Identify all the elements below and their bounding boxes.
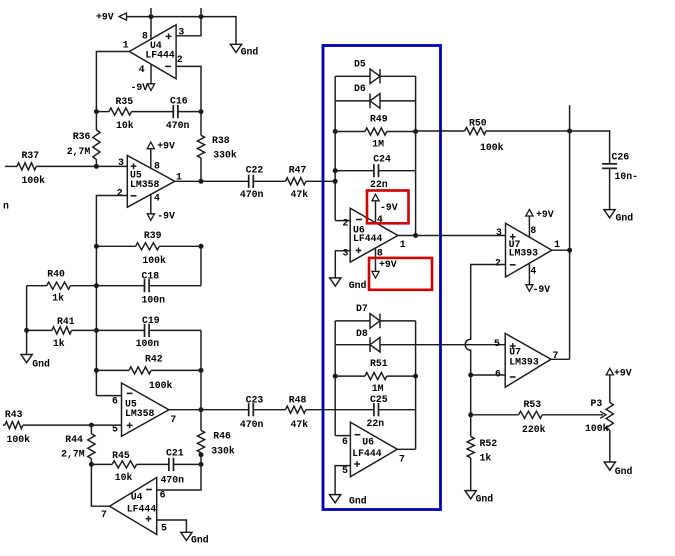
power +9V U5a xyxy=(147,140,175,151)
error box 2 red xyxy=(369,258,432,290)
wire R37 to U5a pin3 xyxy=(36,165,127,167)
junction input left rail xyxy=(333,179,338,184)
svg-text:470n: 470n xyxy=(161,474,185,485)
svg-text:100k: 100k xyxy=(585,423,609,434)
svg-text:100k: 100k xyxy=(480,142,504,153)
svg-text:8: 8 xyxy=(530,225,536,236)
svg-text:R52: R52 xyxy=(480,438,498,449)
svg-text:-9V: -9V xyxy=(380,202,398,213)
svg-text:D7: D7 xyxy=(356,303,368,314)
wire U7a pin4 xyxy=(528,263,530,284)
wire U6b output xyxy=(397,448,415,450)
wire R35 left xyxy=(96,111,109,113)
junction C18 left xyxy=(94,283,99,288)
svg-text:+9V: +9V xyxy=(379,259,397,270)
ground top xyxy=(230,44,258,57)
svg-text:4: 4 xyxy=(154,193,160,204)
wire U7a pin8 xyxy=(528,216,530,237)
op-amp U5 section B xyxy=(112,383,176,436)
svg-text:n: n xyxy=(3,201,9,212)
svg-text:LF444: LF444 xyxy=(353,233,383,244)
wire C16 right xyxy=(178,111,201,113)
error box 1 red xyxy=(367,191,409,224)
wire U5a pin4 xyxy=(150,194,152,213)
svg-text:R53: R53 xyxy=(524,399,542,410)
diode D8 xyxy=(356,328,380,352)
wire U7a pin2 down xyxy=(465,265,505,376)
wire bus pin6 to R53 xyxy=(470,375,472,415)
svg-text:1: 1 xyxy=(123,40,129,51)
svg-text:R41: R41 xyxy=(57,316,75,327)
svg-text:R42: R42 xyxy=(145,353,163,364)
power -9V U6a (error) xyxy=(372,194,398,213)
wire U5b output xyxy=(169,409,249,411)
svg-text:+9V: +9V xyxy=(96,11,114,22)
power -9V U5a xyxy=(147,210,175,221)
wire right rail lower xyxy=(415,321,417,449)
junction R41 left xyxy=(24,328,29,333)
svg-text:4: 4 xyxy=(530,265,536,276)
svg-text:4: 4 xyxy=(139,64,145,75)
svg-text:22n: 22n xyxy=(370,179,388,190)
junction C16 right xyxy=(199,109,204,114)
ground R40/R41 xyxy=(21,355,50,370)
wire U5a output xyxy=(175,180,249,182)
wire D6 row xyxy=(335,100,415,102)
svg-text:6: 6 xyxy=(495,369,501,380)
net label n xyxy=(3,201,9,212)
diode D5 xyxy=(354,58,380,83)
junction output R46 xyxy=(199,407,204,412)
svg-text:R45: R45 xyxy=(112,450,130,461)
svg-text:2: 2 xyxy=(343,218,349,229)
op-amp U6 section A xyxy=(343,208,406,262)
junction R39 left xyxy=(94,244,99,249)
wire left rail upper xyxy=(334,76,336,220)
junction U7a output xyxy=(567,248,572,253)
wire C21 node down to pin6 xyxy=(157,455,201,490)
resistor R41 xyxy=(27,316,97,349)
wire C26 to gnd xyxy=(609,168,611,209)
resistor R35 xyxy=(109,96,134,131)
svg-text:1: 1 xyxy=(554,239,560,250)
svg-text:R44: R44 xyxy=(65,434,83,445)
svg-text:R36: R36 xyxy=(73,131,91,142)
svg-text:1k: 1k xyxy=(53,338,65,349)
svg-text:Gnd: Gnd xyxy=(241,47,259,58)
ground U4b xyxy=(181,532,209,545)
junction U6a output xyxy=(413,233,418,238)
resistor R45 xyxy=(91,450,136,483)
wire D8 row to U7b pin5 xyxy=(335,344,505,346)
resistor R50 xyxy=(416,117,570,153)
svg-text:3: 3 xyxy=(496,227,502,238)
svg-text:C16: C16 xyxy=(170,96,188,107)
svg-text:1M: 1M xyxy=(372,383,384,394)
wire U6a output xyxy=(398,235,506,237)
diode D6 xyxy=(354,83,380,108)
svg-text:C25: C25 xyxy=(370,394,388,405)
svg-text:R37: R37 xyxy=(22,150,40,161)
capacitor C16 xyxy=(166,96,190,132)
wire U5a pin2 left rail xyxy=(96,196,127,396)
capacitor C19 row xyxy=(96,315,201,349)
junction R39 right xyxy=(199,244,204,249)
capacitor C25 xyxy=(367,394,388,429)
resistor R52 xyxy=(467,415,497,491)
capacitor C24 row xyxy=(335,154,415,191)
svg-text:C21: C21 xyxy=(166,447,184,458)
power +9V label top-left xyxy=(96,11,127,22)
svg-text:10n-: 10n- xyxy=(615,171,639,182)
wire D7 row xyxy=(335,320,415,322)
wiper arrow P3 xyxy=(600,411,606,418)
svg-text:LM358: LM358 xyxy=(130,179,160,190)
svg-text:1: 1 xyxy=(400,239,406,250)
wire R43 to U5b pin5 xyxy=(23,424,122,426)
svg-text:LF444: LF444 xyxy=(352,448,382,459)
wire R47 to box xyxy=(306,180,335,182)
resistor R42 xyxy=(96,353,201,391)
svg-text:Gnd: Gnd xyxy=(191,535,209,546)
svg-text:R43: R43 xyxy=(5,409,23,420)
ground U6a xyxy=(330,278,367,291)
wire U4a pin1 feedback xyxy=(96,52,129,112)
wire +9V to pin8 node xyxy=(127,16,152,18)
op-amp U7 section B xyxy=(494,333,559,387)
wire U7b output xyxy=(551,358,570,360)
op-amp U4 section B xyxy=(101,478,167,535)
junction C24 left xyxy=(333,168,338,173)
resistor R36 xyxy=(67,112,100,167)
junction R44/R45 xyxy=(89,462,94,467)
svg-text:R48: R48 xyxy=(289,395,307,406)
resistor R40 xyxy=(27,268,97,303)
resistor R46 xyxy=(197,410,235,457)
wire U4a pin2 xyxy=(176,66,201,111)
junction R50 right xyxy=(567,129,572,134)
svg-text:100n: 100n xyxy=(136,338,160,349)
junction pin8/+9V xyxy=(149,14,154,19)
wire C25 right xyxy=(379,409,416,411)
svg-text:8: 8 xyxy=(142,31,148,42)
wire to C26 xyxy=(570,131,610,164)
svg-text:R46: R46 xyxy=(213,431,231,442)
svg-text:470n: 470n xyxy=(240,189,264,200)
svg-text:+9V: +9V xyxy=(157,140,175,151)
capacitor C23 xyxy=(240,395,264,431)
svg-text:R47: R47 xyxy=(289,165,307,176)
svg-text:1k: 1k xyxy=(52,292,64,303)
resistor R53 xyxy=(471,399,603,435)
wire U4a pin3 xyxy=(176,17,201,36)
wire P3 top xyxy=(609,375,611,402)
wire left rail lower xyxy=(334,321,336,436)
svg-text:7: 7 xyxy=(170,414,176,425)
resistor R51 xyxy=(335,358,415,394)
wire right bus xyxy=(569,105,571,359)
svg-text:100k: 100k xyxy=(22,175,46,186)
wire U6b pin5 to gnd xyxy=(335,466,350,495)
svg-text:Gnd: Gnd xyxy=(32,359,50,370)
svg-text:R51: R51 xyxy=(370,358,388,369)
svg-text:R40: R40 xyxy=(47,268,65,279)
junction R53 left xyxy=(468,412,473,417)
wire U6a pin4 xyxy=(375,201,377,223)
resistor R44 xyxy=(61,425,95,464)
svg-text:Gnd: Gnd xyxy=(615,466,633,477)
svg-text:U4: U4 xyxy=(131,492,143,503)
svg-text:C26: C26 xyxy=(612,152,630,163)
svg-text:6: 6 xyxy=(112,396,118,407)
svg-text:5: 5 xyxy=(494,338,500,349)
node pin3 stub xyxy=(200,8,202,17)
svg-text:220k: 220k xyxy=(522,424,546,435)
svg-text:5: 5 xyxy=(161,523,167,534)
wire right rail upper xyxy=(415,76,417,235)
op-amp U7 section A xyxy=(495,223,560,277)
power +9V U6a (error) xyxy=(372,259,397,278)
svg-text:-9V: -9V xyxy=(533,284,551,295)
junction R42 right xyxy=(199,368,204,373)
wire U6b pin6 xyxy=(335,435,350,437)
svg-text:Gnd: Gnd xyxy=(616,213,634,224)
svg-text:C23: C23 xyxy=(246,395,264,406)
svg-text:470n: 470n xyxy=(166,120,190,131)
svg-text:U6: U6 xyxy=(362,437,374,448)
svg-text:6: 6 xyxy=(160,490,166,501)
svg-text:10k: 10k xyxy=(116,120,134,131)
svg-text:R35: R35 xyxy=(116,96,134,107)
op-amp U5 section A xyxy=(117,156,182,208)
svg-text:7: 7 xyxy=(399,454,405,465)
svg-text:C19: C19 xyxy=(142,315,160,326)
power -9V U7a xyxy=(526,284,550,295)
svg-text:D8: D8 xyxy=(356,328,368,339)
junction R42 left xyxy=(94,368,99,373)
potentiometer P3 xyxy=(585,398,613,434)
ground C26 xyxy=(604,210,633,224)
ground P3 xyxy=(604,462,632,477)
wire U5b pin6 xyxy=(96,395,121,397)
svg-text:C24: C24 xyxy=(373,154,391,165)
wire R48 to C25 xyxy=(306,409,374,411)
svg-text:R50: R50 xyxy=(469,117,487,128)
diode D7 xyxy=(356,303,380,328)
svg-text:6: 6 xyxy=(342,436,348,447)
svg-text:LF444: LF444 xyxy=(145,50,175,61)
resistor R43 xyxy=(3,409,30,445)
svg-text:100n: 100n xyxy=(142,295,166,306)
wire U4a pin4 xyxy=(150,64,152,84)
wire R35-C16 xyxy=(132,111,174,113)
capacitor C21 xyxy=(161,447,185,485)
svg-text:P3: P3 xyxy=(591,398,603,409)
svg-text:2,7M: 2,7M xyxy=(67,146,91,157)
svg-text:R38: R38 xyxy=(212,135,230,146)
svg-text:D6: D6 xyxy=(354,83,366,94)
junction R51 left xyxy=(333,374,338,379)
junction pin6 bus xyxy=(468,373,473,378)
junction R43/R44 xyxy=(89,423,94,428)
svg-text:3: 3 xyxy=(118,157,124,168)
capacitor C22 xyxy=(240,165,264,201)
capacitor C26 xyxy=(602,152,638,183)
wire C22-R47 xyxy=(253,180,285,182)
svg-text:LF444: LF444 xyxy=(127,504,157,515)
junction R51 right xyxy=(413,374,418,379)
svg-text:R39: R39 xyxy=(144,230,162,241)
wire R44 down to U4b out xyxy=(91,464,109,506)
junction output R38 xyxy=(199,179,204,184)
svg-text:D5: D5 xyxy=(354,58,366,69)
power +9V P3 xyxy=(606,368,632,379)
wire U7b pin6 xyxy=(471,374,506,376)
resistor R48 xyxy=(286,395,309,431)
svg-text:2,7M: 2,7M xyxy=(61,449,85,460)
power -9V U4a xyxy=(131,82,155,93)
svg-text:330k: 330k xyxy=(213,150,237,161)
svg-text:R49: R49 xyxy=(370,114,388,125)
svg-text:2: 2 xyxy=(177,54,183,65)
resistor R37 xyxy=(5,150,45,186)
wire U6a pin3 to gnd xyxy=(335,251,350,278)
junction R41 right xyxy=(94,328,99,333)
svg-text:330k: 330k xyxy=(211,445,235,456)
svg-text:Gnd: Gnd xyxy=(349,280,367,291)
wire U7a output xyxy=(552,249,570,251)
wire C19 right down xyxy=(200,330,202,370)
svg-text:-9V: -9V xyxy=(131,82,149,93)
wire U6a pin8 xyxy=(375,248,377,272)
capacitor C18 row xyxy=(96,271,201,306)
svg-text:8: 8 xyxy=(154,161,160,172)
svg-text:2: 2 xyxy=(495,258,501,269)
svg-text:LM393: LM393 xyxy=(509,357,539,368)
svg-text:47k: 47k xyxy=(291,189,309,200)
junction C21 right xyxy=(199,462,204,467)
wire R45-C21 xyxy=(137,463,169,465)
junction pin3 rail top xyxy=(199,14,204,19)
resistor R38 xyxy=(197,112,237,182)
wire D5 row xyxy=(335,75,415,77)
wire U4b pin5 to gnd xyxy=(157,520,187,532)
ground R52 xyxy=(465,491,493,505)
svg-text:+9V: +9V xyxy=(536,209,554,220)
wire C21 right xyxy=(174,463,202,465)
svg-text:Gnd: Gnd xyxy=(349,496,367,507)
power +9V U7a xyxy=(526,209,554,220)
wire +9V rail to Gnd corner xyxy=(151,17,236,45)
wire R42-output right xyxy=(200,370,202,409)
svg-text:47k: 47k xyxy=(291,419,309,430)
wire R40 left down xyxy=(26,286,28,355)
svg-text:LM358: LM358 xyxy=(125,408,155,419)
resistor R39 xyxy=(96,230,201,266)
svg-text:470n: 470n xyxy=(240,419,264,430)
svg-text:1M: 1M xyxy=(372,139,384,150)
node pin8 stub xyxy=(150,8,152,40)
ground U6b xyxy=(330,495,367,507)
wire R39-C18 right xyxy=(200,246,202,285)
highlight box blue xyxy=(323,46,441,510)
svg-text:3: 3 xyxy=(343,248,349,259)
svg-text:2: 2 xyxy=(117,187,123,198)
svg-text:100k: 100k xyxy=(149,380,173,391)
svg-text:-9V: -9V xyxy=(157,210,175,221)
junction R49 right xyxy=(413,129,418,134)
svg-text:5: 5 xyxy=(342,465,348,476)
svg-text:LM393: LM393 xyxy=(509,248,539,259)
junction R49 left xyxy=(333,129,338,134)
svg-text:C22: C22 xyxy=(246,165,264,176)
op-amp U4 section A xyxy=(123,25,185,79)
svg-text:C18: C18 xyxy=(142,271,160,282)
wire U6a pin2 xyxy=(335,220,350,222)
wire C23-R48 xyxy=(253,409,285,411)
svg-text:100k: 100k xyxy=(7,434,31,445)
op-amp U6 section B xyxy=(342,422,405,477)
wire P3 bottom xyxy=(609,430,611,462)
svg-text:Gnd: Gnd xyxy=(476,494,494,505)
junction R35 left xyxy=(94,109,99,114)
svg-text:10k: 10k xyxy=(115,472,133,483)
svg-text:1k: 1k xyxy=(480,453,492,464)
svg-text:22n: 22n xyxy=(367,418,385,429)
resistor R47 xyxy=(286,165,309,201)
svg-text:+9V: +9V xyxy=(614,368,632,379)
svg-text:7: 7 xyxy=(101,509,107,520)
svg-text:100k: 100k xyxy=(142,255,166,266)
junction R36 bottom xyxy=(94,164,99,169)
junction R46 bottom xyxy=(199,452,204,457)
wire U5a pin8 xyxy=(150,149,152,169)
resistor R49 xyxy=(335,114,415,150)
